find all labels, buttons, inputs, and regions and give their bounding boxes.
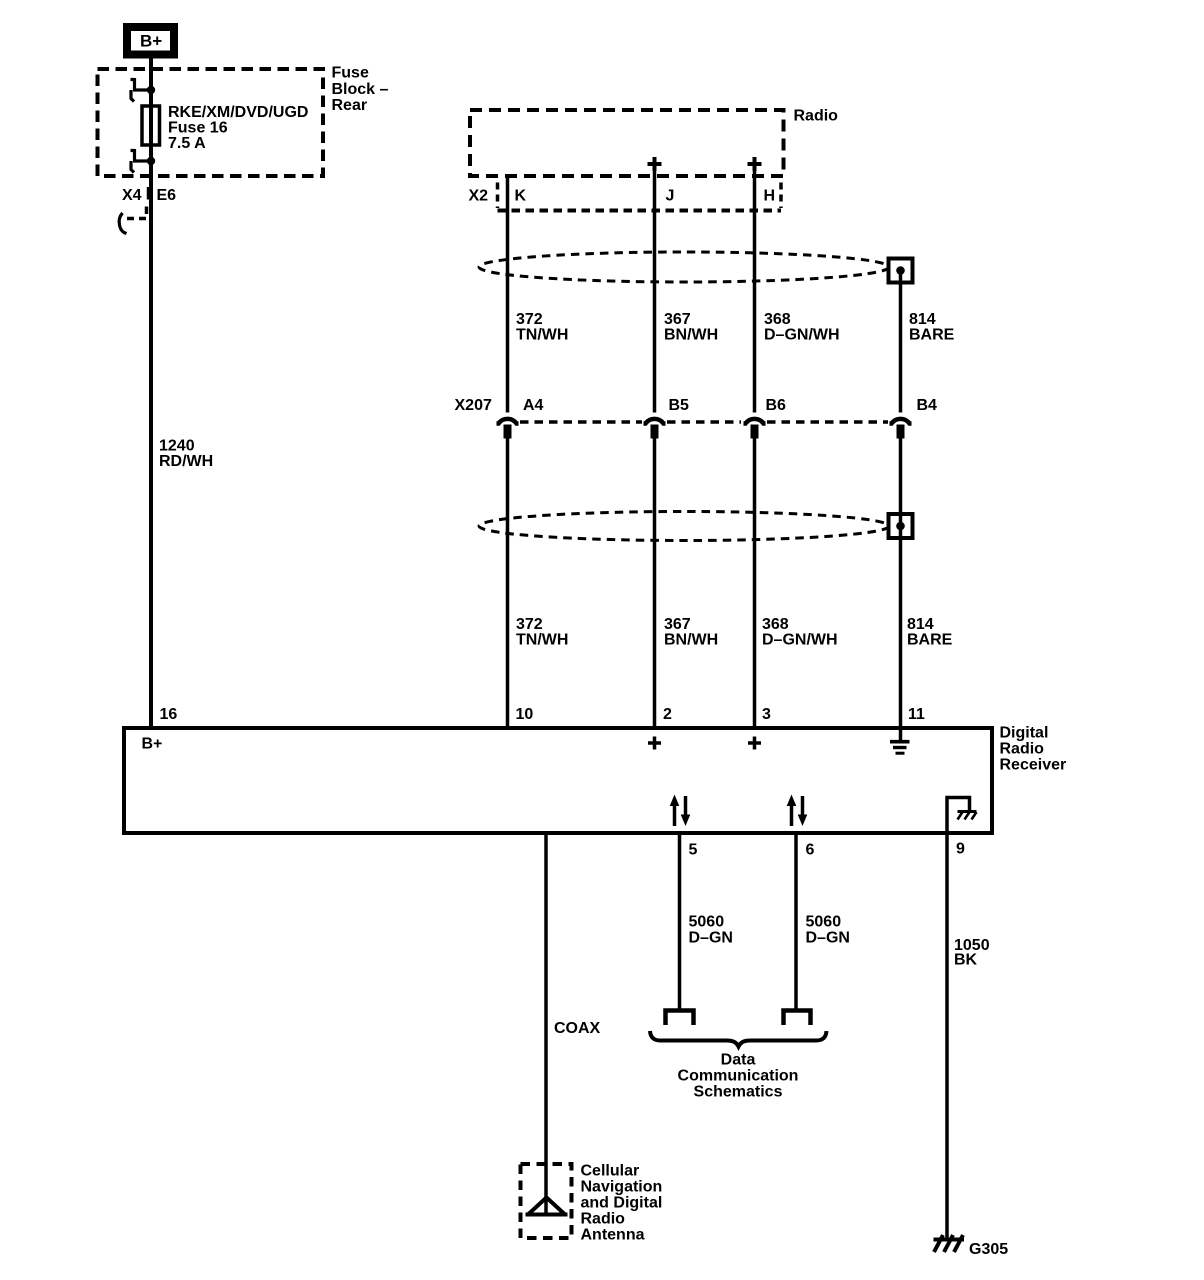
wire 372 TN/WH lower segment (506, 439, 510, 727)
labels X2 K J H (469, 187, 776, 204)
connector X207 pin B4 (890, 419, 912, 439)
svg-text:814: 814 (907, 616, 934, 633)
svg-text:368: 368 (762, 616, 789, 633)
wire 368 D-GN/WH upper segment (753, 171, 757, 413)
ground symbol G305 (934, 1235, 965, 1252)
power symbol B+ (127, 27, 174, 55)
label wire 372 TN/WH upper (516, 311, 568, 344)
wire 1240 RD/WH from B+ to receiver pin 16 (149, 59, 153, 727)
svg-text:367: 367 (664, 311, 691, 328)
svg-text:J: J (666, 187, 675, 204)
svg-text:BN/WH: BN/WH (664, 632, 718, 649)
svg-text:A4: A4 (523, 397, 544, 414)
wire 5060 D-GN pin 6 (794, 835, 798, 1009)
label wire 5060 D-GN right (806, 914, 850, 947)
svg-text:K: K (515, 187, 527, 204)
shield terminal box lower (889, 514, 913, 538)
svg-text:Radio: Radio (794, 108, 839, 125)
svg-text:COAX: COAX (554, 1020, 601, 1037)
shield drain junction dot upper (896, 266, 905, 275)
svg-text:D–GN/WH: D–GN/WH (764, 327, 840, 344)
connector X4 E6 labels (122, 187, 176, 204)
shield ellipse upper (479, 252, 889, 282)
label wire 367 BN/WH upper (664, 311, 718, 344)
plus terminal pin 2 (648, 737, 661, 750)
chassis ground symbol pin 9 (947, 798, 977, 832)
svg-text:RKE/XM/DVD/UGD: RKE/XM/DVD/UGD (168, 104, 308, 121)
svg-text:Rear: Rear (332, 97, 368, 114)
svg-text:B5: B5 (669, 397, 690, 414)
wire 814 BARE upper segment (899, 271, 903, 413)
wire 5060 D-GN pin 5 (678, 835, 682, 1009)
svg-text:372: 372 (516, 311, 543, 328)
svg-text:RD/WH: RD/WH (159, 453, 213, 470)
label wire 368 D-GN/WH upper (764, 311, 840, 344)
svg-text:TN/WH: TN/WH (516, 327, 568, 344)
svg-text:X2: X2 (469, 187, 489, 204)
svg-text:D–GN: D–GN (689, 930, 733, 947)
label wire 367 BN/WH lower (664, 616, 718, 649)
shield drain junction dot lower (896, 522, 905, 531)
wire 814 BARE lower segment (899, 439, 903, 727)
svg-text:Radio: Radio (581, 1211, 626, 1228)
wire 367 BN/WH lower segment (653, 439, 657, 727)
label Digital Radio Receiver (1000, 725, 1067, 774)
svg-text:and Digital: and Digital (581, 1195, 663, 1212)
junction dot below fuse (147, 157, 155, 165)
data arrows pin 5 (670, 795, 691, 827)
svg-text:Antenna: Antenna (581, 1227, 645, 1244)
brace data communication (650, 1031, 827, 1047)
svg-text:Navigation: Navigation (581, 1179, 663, 1196)
plus terminal pin 3 (748, 737, 761, 750)
svg-text:Radio: Radio (1000, 741, 1045, 758)
svg-text:6: 6 (806, 842, 815, 859)
svg-text:367: 367 (664, 616, 691, 633)
svg-text:Fuse: Fuse (332, 65, 369, 82)
svg-text:11: 11 (908, 706, 925, 723)
svg-text:Cellular: Cellular (581, 1163, 640, 1180)
label Data Communication Schematics (678, 1052, 799, 1101)
junction dot above fuse (147, 86, 155, 94)
label wire 814 BARE upper (909, 311, 955, 344)
antenna dashed box (521, 1164, 572, 1238)
svg-text:G305: G305 (969, 1241, 1008, 1258)
connector X207 dashed line (520, 420, 888, 424)
svg-text:Schematics: Schematics (694, 1084, 783, 1101)
receiver pin number labels bottom (689, 841, 966, 859)
svg-text:Digital: Digital (1000, 725, 1049, 742)
svg-text:BK: BK (954, 951, 978, 968)
svg-text:BN/WH: BN/WH (664, 327, 718, 344)
svg-text:5: 5 (689, 842, 698, 859)
coax wire (544, 835, 548, 1214)
label fuse 16 (168, 104, 308, 152)
svg-text:X207: X207 (455, 397, 492, 414)
svg-text:Communication: Communication (678, 1068, 799, 1085)
svg-text:Fuse 16: Fuse 16 (168, 120, 228, 137)
off-page connector pin 5 (666, 1011, 694, 1026)
svg-text:3: 3 (762, 706, 771, 723)
fuse block rear dashed box (98, 69, 324, 176)
label Cellular Navigation and Digital Radio Antenna (581, 1163, 663, 1244)
svg-text:Block –: Block – (332, 81, 389, 98)
svg-text:X4: X4 (122, 187, 142, 204)
radio dashed box (470, 110, 784, 176)
svg-text:BARE: BARE (907, 632, 953, 649)
svg-text:Receiver: Receiver (1000, 757, 1067, 774)
svg-text:BARE: BARE (909, 327, 955, 344)
in-line connector stub (119, 207, 147, 234)
svg-text:16: 16 (160, 706, 178, 723)
svg-text:368: 368 (764, 311, 791, 328)
svg-text:D–GN/WH: D–GN/WH (762, 632, 838, 649)
wire 367 BN/WH upper segment (653, 171, 657, 413)
svg-text:5060: 5060 (806, 914, 842, 931)
fuse terminal connector top (131, 78, 152, 102)
fuse F16 body (142, 106, 160, 145)
svg-text:2: 2 (663, 706, 672, 723)
svg-text:814: 814 (909, 311, 936, 328)
connector X207 pin A4 (497, 419, 519, 439)
svg-text:5060: 5060 (689, 914, 725, 931)
digital radio receiver box (124, 728, 992, 833)
radio plus terminal J (648, 157, 662, 171)
antenna symbol (526, 1198, 568, 1215)
label wire 372 TN/WH lower (516, 616, 568, 649)
svg-text:B+: B+ (142, 736, 163, 753)
connector X4 E6 separator (147, 187, 151, 200)
fuse terminal connector bottom (131, 149, 152, 173)
label wire 1240 RD/WH (159, 438, 213, 470)
data arrows pin 6 (787, 795, 808, 827)
ground symbol at pin 11 (890, 730, 910, 754)
svg-text:D–GN: D–GN (806, 930, 850, 947)
label wire 1050 BK (954, 937, 990, 968)
label wire 5060 D-GN left (689, 914, 733, 947)
svg-text:7.5 A: 7.5 A (168, 135, 206, 152)
off-page connector pin 6 (784, 1011, 811, 1026)
radio plus terminal H (748, 157, 762, 171)
connector X207 pin B5 (644, 419, 666, 439)
svg-text:B4: B4 (917, 397, 938, 414)
label wire 368 D-GN/WH lower (762, 616, 838, 649)
svg-text:H: H (764, 187, 776, 204)
label wire 814 BARE lower (907, 616, 953, 649)
svg-text:TN/WH: TN/WH (516, 632, 568, 649)
svg-text:10: 10 (516, 706, 534, 723)
connector X207 pin B6 (744, 419, 766, 439)
radio connector X2 strip (498, 183, 782, 211)
wire 1050 BK pin 9 (945, 835, 949, 1240)
svg-text:B+: B+ (140, 32, 162, 51)
shield terminal box upper (889, 259, 913, 283)
label Fuse Block Rear (332, 65, 389, 114)
shield ellipse lower (479, 512, 889, 541)
svg-text:Data: Data (721, 1052, 756, 1069)
wire 368 D-GN/WH lower segment (753, 439, 757, 727)
svg-text:9: 9 (956, 841, 965, 858)
svg-text:B6: B6 (766, 397, 787, 414)
wire 372 TN/WH upper segment (506, 178, 510, 413)
svg-text:E6: E6 (157, 187, 177, 204)
pin labels A4 B5 B6 B4 (523, 397, 937, 414)
receiver pin number labels top (160, 706, 926, 723)
svg-text:372: 372 (516, 616, 543, 633)
